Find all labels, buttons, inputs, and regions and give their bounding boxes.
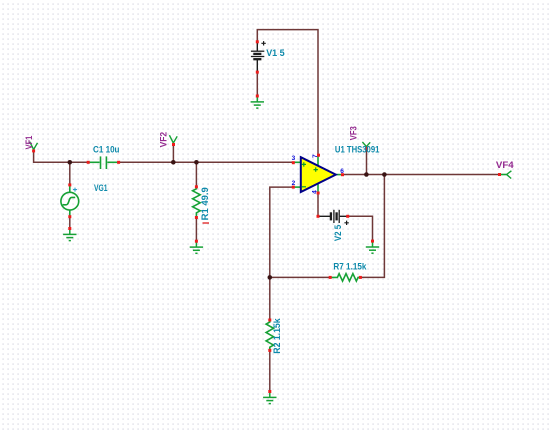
svg-text:VF3: VF3 (348, 126, 358, 140)
svg-text:R1 49.9: R1 49.9 (200, 187, 210, 220)
svg-text:V2 5: V2 5 (333, 225, 343, 241)
svg-text:V1 5: V1 5 (266, 48, 285, 58)
svg-text:U1 THS3091: U1 THS3091 (335, 145, 380, 155)
svg-text:6: 6 (340, 168, 344, 175)
svg-text:R7 1.15k: R7 1.15k (333, 261, 367, 271)
svg-text:VG1: VG1 (94, 183, 108, 193)
svg-text:VF4: VF4 (496, 160, 514, 170)
svg-text:4: 4 (312, 190, 319, 194)
svg-text:3: 3 (292, 155, 296, 162)
svg-text:2: 2 (292, 180, 296, 187)
svg-text:7: 7 (312, 154, 319, 158)
svg-text:C1 10u: C1 10u (93, 144, 120, 154)
svg-text:VF2: VF2 (158, 132, 168, 148)
svg-text:VF1: VF1 (24, 136, 34, 150)
svg-text:R2 1.15k: R2 1.15k (272, 317, 282, 353)
svg-text:I: I (201, 222, 211, 225)
